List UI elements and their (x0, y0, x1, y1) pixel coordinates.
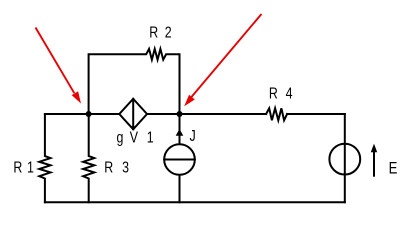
svg-text:2: 2 (165, 23, 172, 41)
wire right branch (344, 114, 346, 202)
E arrow shaft (373, 152, 375, 176)
svg-text:R: R (149, 23, 158, 41)
wire J branch upper stub (179, 114, 181, 144)
label R 4 (269, 84, 293, 102)
label R 2 (149, 23, 172, 41)
svg-text:3: 3 (122, 158, 129, 176)
current source J circle (164, 144, 195, 175)
J arrowhead (up) (176, 129, 184, 136)
svg-text:R: R (13, 158, 22, 176)
red annotation arrow 1 (36, 28, 75, 94)
voltage source E circle (329, 144, 360, 175)
resistor R4 (horizontal) (266, 108, 287, 120)
svg-text:1: 1 (147, 128, 154, 146)
node A dot (86, 111, 92, 117)
svg-text:V: V (130, 128, 139, 146)
wire top loop with resistor R2 (89, 49, 180, 114)
svg-text:1: 1 (27, 158, 34, 176)
svg-text:g: g (117, 128, 124, 146)
label R 1 (13, 158, 34, 176)
wire bottom horizontal (45, 201, 345, 203)
svg-text:R: R (269, 84, 278, 102)
node B dot (177, 111, 183, 117)
svg-text:E: E (389, 159, 398, 178)
resistor R3 (branch at node A) (83, 114, 94, 202)
svg-text:J: J (190, 127, 196, 145)
svg-text:4: 4 (286, 84, 293, 102)
wire J branch lower stub (179, 175, 181, 203)
wire main horizontal (45, 113, 345, 115)
svg-text:R: R (104, 158, 113, 176)
label R 3 (104, 158, 129, 176)
resistor R1 (left branch) (39, 114, 50, 202)
red annotation arrow 2 (191, 14, 262, 98)
current source J chord (164, 159, 195, 161)
dependent source gV1 diamond (119, 99, 147, 130)
gV1 internal arrow shaft (132, 99, 134, 130)
label g V 1 (117, 128, 154, 146)
gV1 arrowhead (down) (131, 126, 137, 130)
E arrowhead (up) (371, 144, 377, 153)
